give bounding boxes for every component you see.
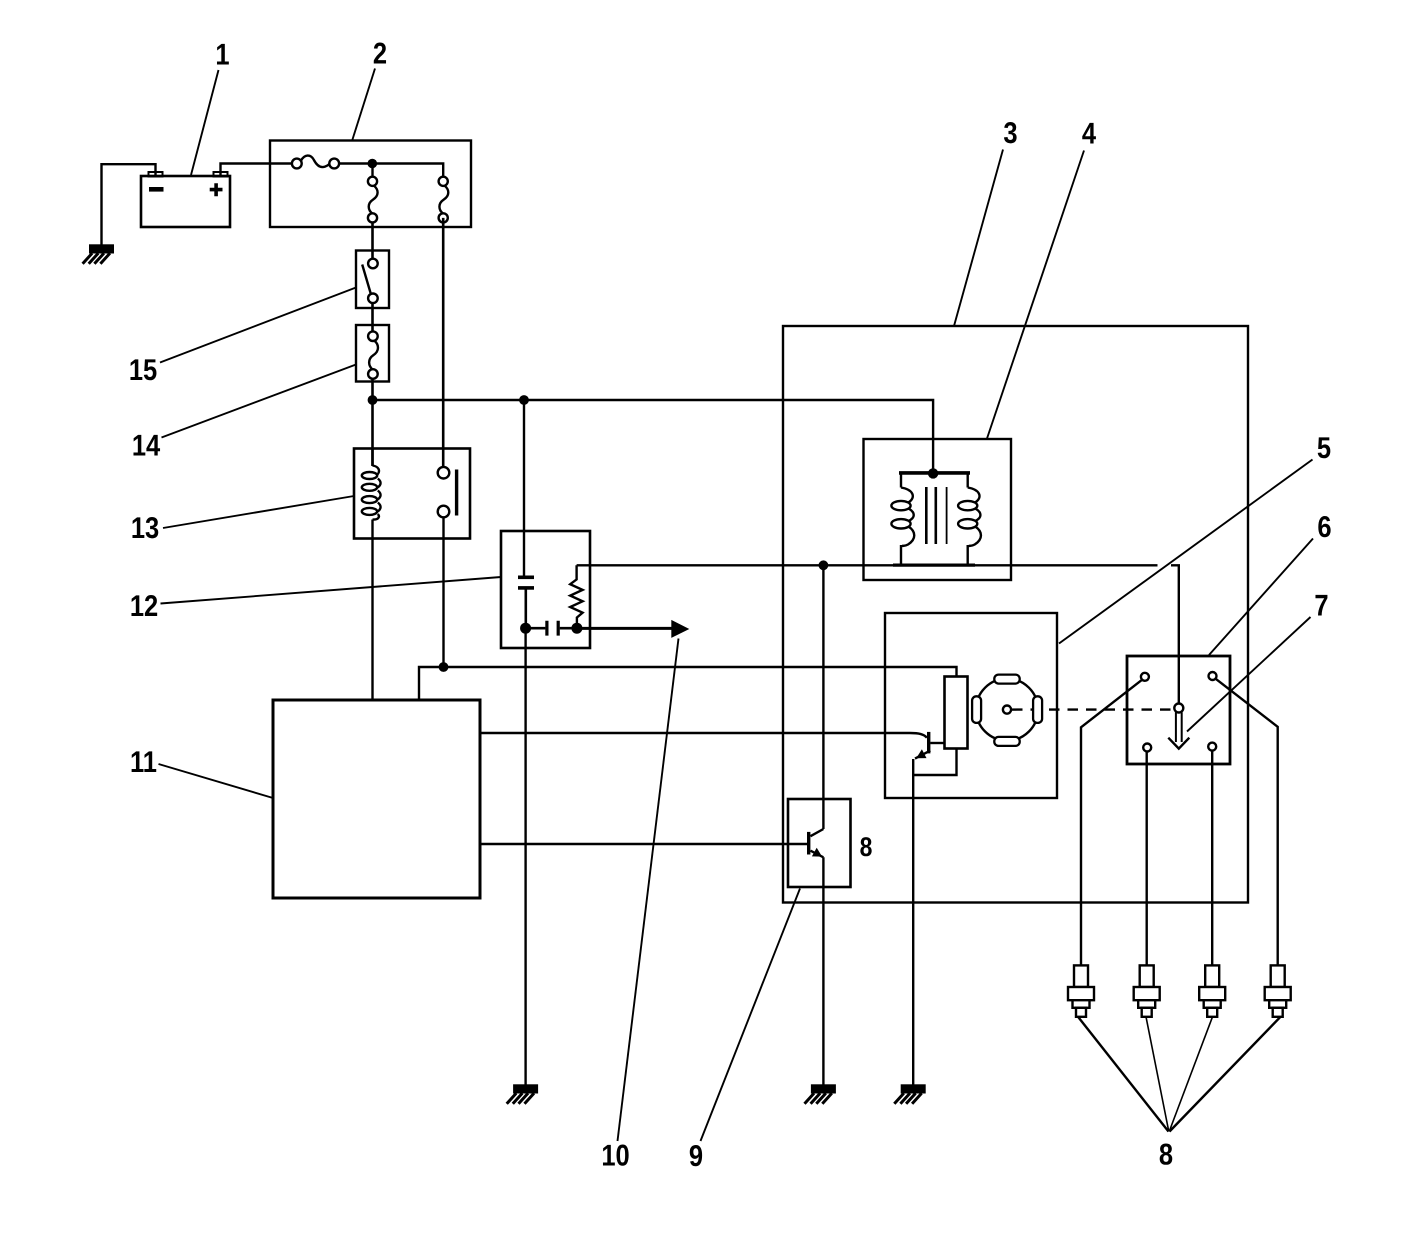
label 3 [954, 150, 1003, 327]
wire left link to ignition switch 15 [371, 223, 374, 259]
ground pickup [894, 1084, 925, 1104]
dashed shaft line [1012, 708, 1173, 710]
svg-text:7: 7 [1314, 590, 1328, 623]
ignition coil symbol [891, 468, 981, 565]
svg-text:4: 4 [1082, 118, 1096, 151]
junction node in fuse block [368, 159, 378, 169]
reluctor [972, 675, 1042, 746]
spark plug 2 [1134, 965, 1160, 1016]
wire relay contact down to node [442, 517, 444, 667]
pickup transistor [913, 732, 956, 1085]
label 9 [701, 889, 801, 1142]
label 7 [1187, 617, 1311, 732]
distributor assembly box 3 [783, 326, 1248, 903]
node at link14 bus [368, 395, 378, 405]
svg-text:8: 8 [1159, 1139, 1173, 1172]
svg-text:9: 9 [689, 1140, 703, 1173]
ECM 11 [273, 700, 480, 898]
label 10 [618, 639, 679, 1142]
fusible link 14 [356, 325, 389, 382]
leader lines to label 8 [1078, 1017, 1169, 1132]
ignition coil 4 box [864, 439, 1012, 580]
fusible link left in fuse block [368, 177, 378, 223]
svg-text:14: 14 [132, 430, 161, 463]
ignition switch 15 [356, 251, 389, 309]
node at condenser branch [519, 395, 529, 405]
wire node to power transistor collector [822, 565, 824, 829]
spark plug wire 4 [1216, 679, 1278, 966]
wire fuse to junction and right link [338, 164, 443, 178]
label 4 [987, 151, 1084, 439]
distributor cap 7 box [1127, 656, 1230, 764]
ECM output to power transistor base [480, 843, 807, 845]
wire link 14 down through node to relay coil [371, 379, 374, 466]
trigger signal arrow 10 [577, 620, 689, 638]
label 14 [162, 365, 357, 438]
spark plug 3 [1199, 965, 1225, 1016]
wire condenser to ground [524, 628, 526, 1085]
ECM output to pickup transistor base [480, 733, 927, 738]
svg-text:10: 10 [601, 1140, 629, 1173]
relay 13 [354, 449, 470, 539]
wire bus node to ignition coil (top horizontal) [373, 400, 934, 469]
wire condenser resistor line to coil negative [577, 564, 1158, 566]
wire battery negative to ground [102, 164, 156, 245]
svg-text:8: 8 [860, 832, 873, 862]
label 15 [160, 288, 356, 363]
wire node down to condenser 12 [523, 400, 525, 578]
cap terminals [1141, 672, 1217, 752]
svg-text:15: 15 [129, 354, 157, 387]
wire right link down to relay contact [442, 218, 445, 468]
fuse block 2 [270, 141, 471, 228]
spark plug wire 3 [1211, 747, 1213, 966]
node relay output [439, 662, 449, 672]
label 5 [1059, 460, 1313, 644]
svg-text:1: 1 [215, 39, 229, 72]
svg-text:11: 11 [130, 746, 157, 779]
label 2 [352, 69, 375, 142]
condenser unit 12 [501, 531, 590, 648]
spark plug wire 1 [1081, 680, 1142, 966]
wire relay coil to ECM 11 [371, 539, 373, 701]
wire switch 15 to fusible link 14 [371, 303, 374, 331]
label 11 [159, 764, 274, 798]
fusible link right in fuse block [439, 177, 449, 223]
spark plug 4 [1265, 965, 1291, 1016]
battery 1 [141, 172, 230, 227]
svg-text:13: 13 [131, 512, 159, 545]
wire junction down to left link [371, 164, 373, 178]
pickup coil [945, 677, 968, 749]
wire battery positive to fuse block [221, 164, 294, 177]
power transistor 9 [788, 799, 851, 1085]
wire node to ECM and to pickup coil [419, 667, 957, 700]
svg-text:6: 6 [1317, 511, 1331, 544]
ground condenser [507, 1084, 538, 1104]
label 12 [161, 577, 502, 604]
wire coil secondary to rotor [1171, 565, 1179, 704]
ground power transistor [805, 1084, 836, 1104]
node coil negative branch [819, 560, 829, 570]
svg-text:5: 5 [1317, 432, 1331, 465]
svg-text:3: 3 [1003, 117, 1017, 150]
label 1 [191, 70, 219, 175]
rotor [1168, 704, 1189, 749]
fuse [292, 156, 339, 169]
pickup coil unit 5 box [885, 613, 1057, 798]
svg-text:2: 2 [373, 38, 387, 71]
spark plug 1 [1068, 965, 1094, 1016]
svg-text:12: 12 [130, 590, 158, 623]
label 6 [1209, 539, 1313, 656]
ground battery [83, 244, 114, 263]
spark plug wire 2 [1145, 748, 1147, 966]
label 13 [163, 496, 354, 528]
